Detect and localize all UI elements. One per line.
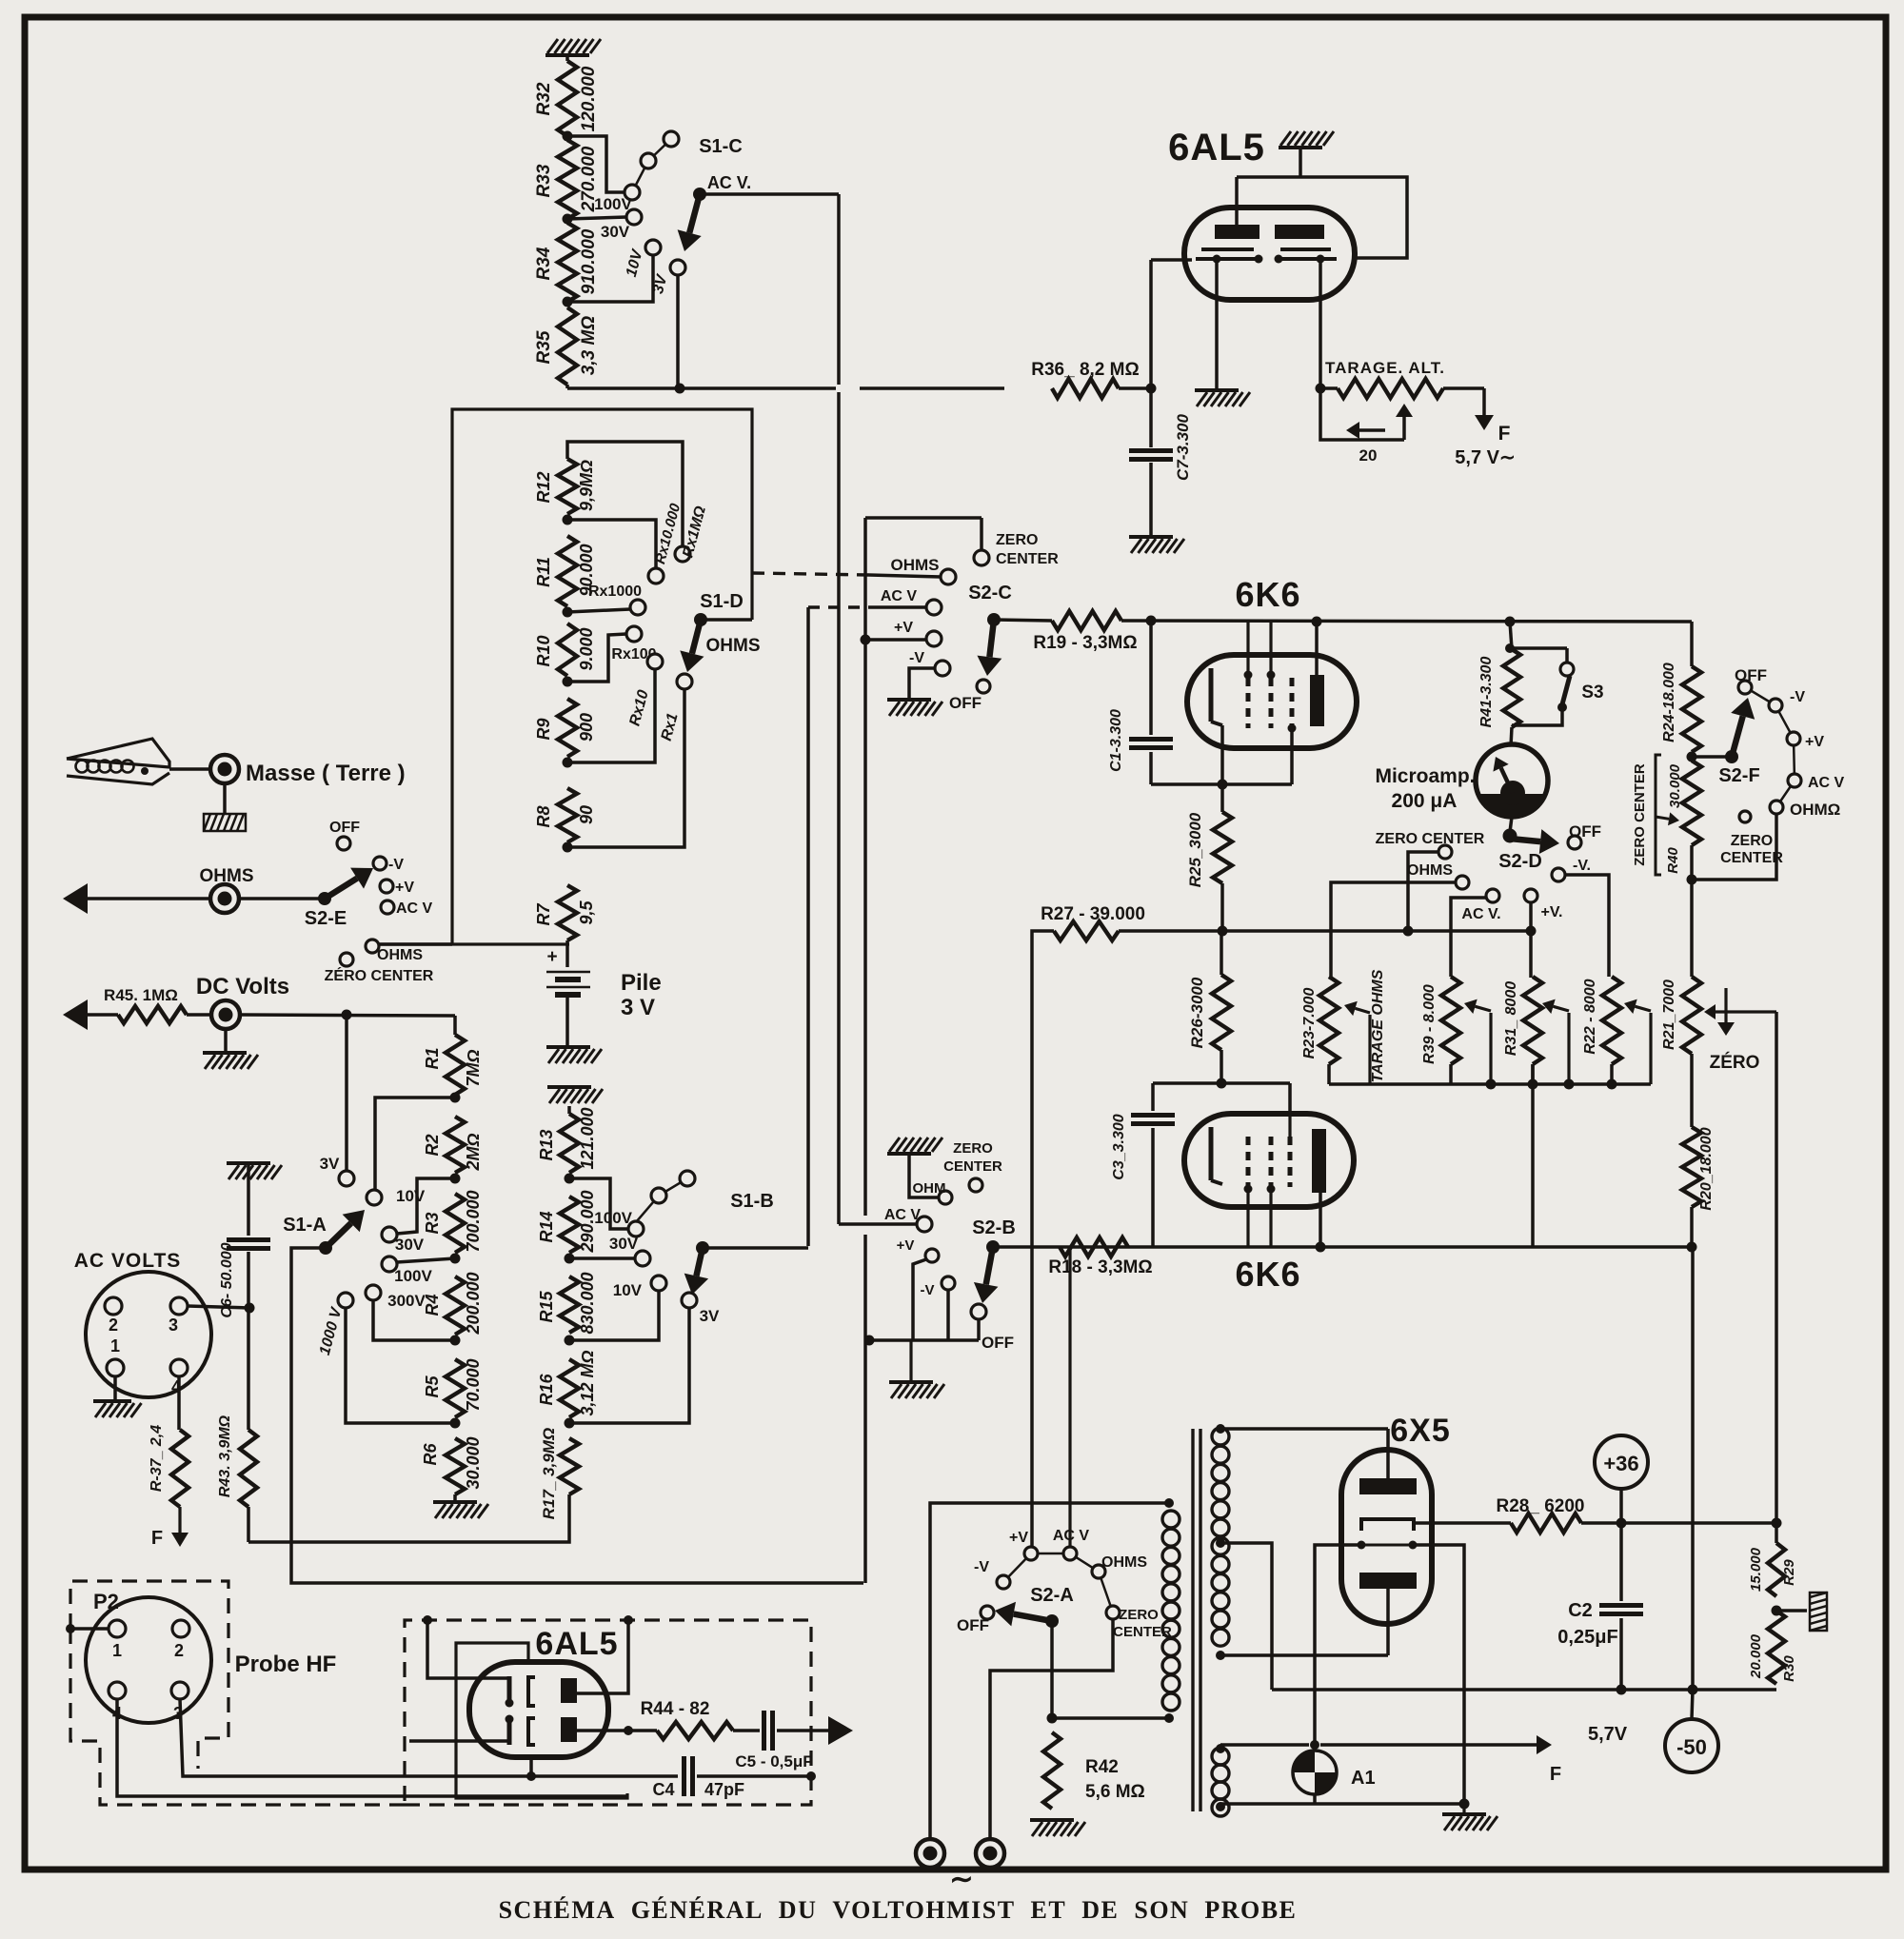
contact +V S2-B	[897, 1237, 939, 1262]
contact Rx10 S1-D	[626, 654, 663, 728]
terminal DC Volts	[187, 974, 289, 1029]
contact arc S1-C	[635, 131, 679, 187]
resistor R13	[537, 1107, 597, 1173]
switch S1-D	[680, 591, 760, 672]
wire 6AL5 cathode2 down	[1319, 263, 1322, 388]
node R13/R14	[565, 1174, 575, 1184]
svg-text:R36_ 8,2 MΩ: R36_ 8,2 MΩ	[1031, 360, 1139, 380]
switch S3	[1505, 643, 1604, 725]
resistor R4	[423, 1272, 483, 1335]
potentiometer R23 TARAGE OHMS	[1301, 969, 1386, 1084]
svg-text:200 μA: 200 μA	[1392, 790, 1458, 812]
ground below R42	[1030, 1820, 1085, 1836]
contact OFF S2-E	[329, 820, 360, 850]
wire HV bottom to 6X5 plate2	[1220, 1653, 1388, 1657]
wire tap 100V S1-B	[569, 1178, 628, 1229]
resistor R37	[149, 1425, 188, 1507]
contact OFF S2-B	[971, 1304, 1014, 1352]
wire R27 left leg	[1032, 931, 1054, 1551]
svg-text:30V: 30V	[609, 1235, 639, 1253]
6X5 heater	[1358, 1541, 1418, 1550]
ground below battery	[546, 1047, 602, 1063]
probe P2 dashed box	[70, 1581, 405, 1805]
resistor R20	[1682, 1127, 1715, 1211]
svg-text:6K6: 6K6	[1235, 575, 1300, 614]
svg-text:R3: R3	[423, 1212, 442, 1234]
resistor R27	[1041, 904, 1222, 940]
contact zero center S2-A	[1106, 1606, 1172, 1640]
contact OHMS S2-C	[891, 556, 957, 584]
ground below C7	[1129, 537, 1184, 553]
6AL5 plate 2	[1275, 225, 1324, 239]
contact ACV S2-D	[1461, 889, 1500, 922]
node R11/R10	[563, 607, 573, 618]
ohms range box	[372, 409, 752, 944]
wire tap 10V S1-A	[375, 1098, 455, 1190]
switch S2-A	[995, 1585, 1074, 1628]
resistor R45	[104, 986, 187, 1023]
6K6u grid 2	[1267, 621, 1276, 728]
wire C3 bus	[1153, 1083, 1290, 1116]
wire S1-A pivot west-south	[291, 1248, 863, 1583]
wire pin3 long	[180, 1699, 678, 1776]
contact Rx1M S1-D	[675, 504, 709, 562]
terminal AC input right	[976, 1839, 1004, 1868]
switch S2-C	[968, 583, 1012, 676]
contact zero center S2-C	[974, 532, 1059, 567]
contact 10V S1-A	[367, 1187, 426, 1205]
svg-text:290.000: 290.000	[578, 1190, 597, 1253]
svg-text:6AL5: 6AL5	[1168, 127, 1265, 168]
svg-text:3,3 MΩ: 3,3 MΩ	[579, 316, 599, 376]
wire C4 to box edge	[697, 1771, 816, 1781]
wire tap 100V S1-A	[397, 1258, 455, 1262]
wire socket pin4 to R37	[177, 1376, 181, 1430]
contact +V S2-E	[380, 880, 414, 896]
wire tap Rx10000	[567, 520, 656, 568]
wire minus rail	[1272, 1688, 1776, 1692]
ground below pin1	[93, 1401, 142, 1417]
svg-text:2MΩ: 2MΩ	[464, 1133, 483, 1171]
contact OHMS S2-E	[366, 940, 423, 963]
junction +36	[1616, 1518, 1627, 1529]
junction R22 bottom	[1607, 1079, 1617, 1090]
svg-text:30.000: 30.000	[1667, 763, 1683, 808]
wire tap 10V	[567, 255, 653, 302]
svg-text:C2: C2	[1568, 1600, 1593, 1621]
contact zero center S2-D	[1376, 831, 1485, 859]
svg-text:100V: 100V	[594, 195, 632, 213]
svg-text:R42: R42	[1085, 1757, 1119, 1777]
svg-text:47pF: 47pF	[704, 1780, 744, 1799]
junction probe box top left	[423, 1615, 432, 1625]
svg-text:ZERO: ZERO	[953, 1140, 993, 1157]
ground heater	[1442, 1804, 1497, 1830]
contact +V S2-C	[894, 620, 942, 646]
contact ACV S2-F	[1788, 774, 1845, 791]
svg-text:200.000: 200.000	[464, 1272, 483, 1335]
junction +V bus	[1526, 926, 1537, 937]
svg-text:830.000: 830.000	[578, 1272, 597, 1334]
svg-text:ZERO: ZERO	[1731, 833, 1773, 849]
contact 100V S1-A	[382, 1256, 433, 1285]
resistor R25	[1186, 784, 1232, 887]
riser DC divider	[863, 518, 867, 1583]
wire +V S2-B	[913, 1259, 926, 1340]
wire R21 to R20	[1690, 1054, 1694, 1127]
socket AC VOLTS	[74, 1250, 211, 1397]
capacitor C1	[1108, 621, 1173, 784]
6AL5 anode loop wire	[1300, 177, 1407, 258]
svg-text:6X5: 6X5	[1390, 1413, 1451, 1449]
svg-text:R7: R7	[534, 903, 553, 926]
contact 30V S1-C	[601, 209, 642, 241]
wire zero center S2-A down	[990, 1619, 1113, 1837]
6AL5 plate 1	[1215, 225, 1259, 239]
6K6u cathode	[1211, 668, 1222, 784]
wire R25 to R27 node	[1220, 883, 1224, 931]
svg-text:C3_3.300: C3_3.300	[1111, 1114, 1127, 1179]
contact ACV S2-B	[884, 1207, 932, 1232]
svg-text:+: +	[546, 947, 557, 967]
svg-text:Pile: Pile	[621, 970, 662, 996]
resistor R21	[1661, 977, 1701, 1054]
switch S2-B	[972, 1217, 1016, 1303]
svg-text:R-37_ 2,4: R-37_ 2,4	[149, 1425, 165, 1492]
svg-text:R30: R30	[1781, 1655, 1797, 1682]
svg-text:-V: -V	[974, 1559, 989, 1575]
wire C6 to R43	[247, 1308, 250, 1430]
wire 6X5 heater left to A1	[1315, 1545, 1361, 1745]
contact -V S2-A	[974, 1559, 1010, 1589]
node R36/C7/6AL5	[1146, 384, 1157, 394]
svg-text:Microamp.: Microamp.	[1375, 765, 1475, 787]
svg-text:TARAGE. ALT.: TARAGE. ALT.	[1325, 359, 1445, 377]
junction C1 bus	[1146, 616, 1157, 626]
node R10/R9	[563, 677, 573, 687]
svg-text:70.000: 70.000	[464, 1358, 483, 1411]
svg-text:7MΩ: 7MΩ	[464, 1049, 483, 1086]
transformer HV secondary winding	[1212, 1424, 1229, 1660]
battery Pile 3V	[546, 940, 662, 1045]
node R12/R11	[563, 515, 573, 525]
6K6l plate	[1312, 1129, 1326, 1247]
svg-text:R24-18.000: R24-18.000	[1661, 663, 1677, 742]
svg-text:TARAGE OHMS: TARAGE OHMS	[1370, 969, 1386, 1082]
ground below R6	[433, 1494, 488, 1518]
wire to primary bottom	[1052, 1716, 1169, 1720]
node R34/R35	[563, 297, 573, 307]
tube 6K6 upper	[1187, 575, 1357, 748]
svg-text:R13: R13	[537, 1129, 556, 1160]
6K6l grid 1	[1244, 1137, 1253, 1247]
svg-text:OHMS: OHMS	[1407, 862, 1453, 879]
ground below Masse	[204, 814, 246, 831]
svg-text:9,5: 9,5	[577, 900, 596, 925]
svg-text:R26-3000: R26-3000	[1188, 977, 1206, 1048]
svg-text:R18 - 3,3MΩ: R18 - 3,3MΩ	[1048, 1257, 1152, 1277]
svg-text:R40: R40	[1665, 847, 1681, 874]
svg-text:R35: R35	[534, 330, 554, 364]
svg-text:R45. 1MΩ: R45. 1MΩ	[104, 986, 178, 1004]
svg-text:AC V.: AC V.	[1461, 906, 1500, 922]
6AL5p plate hook 1	[528, 1677, 535, 1706]
capacitor C5	[733, 1711, 832, 1771]
resistor R44	[641, 1699, 733, 1739]
meter Microamp 200uA	[1375, 727, 1548, 817]
wire DC Volts to R1	[240, 1015, 455, 1016]
resistor R11	[534, 536, 596, 606]
resistor R36	[1031, 360, 1139, 398]
zero center bracket R40	[1632, 755, 1679, 875]
transformer primary winding	[1162, 1498, 1180, 1723]
svg-text:2: 2	[174, 1641, 184, 1660]
contact OHM-ohm S2-F	[1770, 801, 1840, 819]
svg-text:CENTER: CENTER	[1720, 850, 1783, 866]
probe 6AL5 dashed box	[405, 1620, 811, 1805]
svg-text:R31_ 8000: R31_ 8000	[1503, 981, 1519, 1056]
resistor R17	[540, 1428, 579, 1519]
node R1/R2	[450, 1093, 461, 1103]
resistor R2	[423, 1117, 483, 1173]
resistor R14	[537, 1190, 597, 1253]
svg-text:-V: -V	[1790, 689, 1805, 705]
6AL5 cathode 2	[1275, 249, 1338, 264]
6AL5p anode 1	[561, 1678, 577, 1703]
wire -V to ground	[909, 668, 935, 698]
wire R40 to R21	[1690, 880, 1694, 977]
svg-text:1: 1	[112, 1641, 122, 1660]
svg-text:S1-A: S1-A	[283, 1215, 327, 1236]
svg-text:R39 - 8.000: R39 - 8.000	[1421, 984, 1438, 1064]
junction R27 node	[1218, 926, 1228, 937]
wire OHMS terminal to S2-E	[239, 897, 325, 900]
resistor R5	[423, 1358, 483, 1417]
node R3/R4	[450, 1254, 461, 1264]
wire -V S2-B	[946, 1291, 950, 1340]
wire socket pin3 to C6 line	[188, 1306, 249, 1308]
contact -V S2-F	[1769, 689, 1805, 712]
svg-text:3V: 3V	[320, 1155, 340, 1173]
contact OFF S2-A	[957, 1606, 994, 1634]
resistor R35	[534, 307, 599, 385]
junction R20 bus	[1687, 1242, 1697, 1253]
svg-text:2: 2	[109, 1316, 118, 1335]
wire S1-D pivot to box	[701, 618, 752, 622]
svg-text:R15: R15	[537, 1291, 556, 1323]
svg-text:3 V: 3 V	[621, 995, 655, 1020]
resistor R28	[1497, 1496, 1585, 1533]
svg-text:-V: -V	[388, 857, 404, 873]
svg-text:OFF: OFF	[957, 1616, 989, 1634]
node R2/R3	[450, 1174, 461, 1184]
contact 1000V S1-A	[317, 1293, 353, 1357]
contact 300V S1-A	[366, 1285, 426, 1310]
svg-text:R16: R16	[537, 1374, 556, 1406]
node R8/R7	[563, 842, 573, 853]
resistor R32	[534, 61, 599, 136]
svg-text:900: 900	[577, 713, 596, 742]
junction R29/R30	[1772, 1606, 1782, 1616]
contact OHM S2-B	[913, 1180, 953, 1204]
contact 3V S1-A	[320, 1155, 354, 1186]
wire clip to Masse terminal	[169, 767, 210, 771]
switch S2-F	[1718, 698, 1759, 786]
contact -V S2-D	[1552, 858, 1591, 881]
svg-text:3: 3	[169, 1316, 178, 1335]
arrow probe output	[828, 1716, 853, 1745]
6K6l grid 3	[1288, 1116, 1291, 1187]
capacitor C3	[1111, 1083, 1175, 1247]
contact OHMS S2-A	[1092, 1554, 1147, 1578]
wire tap 30V S1-B	[569, 1256, 635, 1260]
junction R40 bottom	[1687, 875, 1697, 885]
svg-text:R4: R4	[423, 1294, 442, 1316]
svg-text:R5: R5	[423, 1375, 442, 1398]
wire pin4 long	[117, 1699, 627, 1796]
wire 6X5 heater right to ground	[1413, 1545, 1464, 1804]
ground below -V S2-C	[887, 700, 942, 716]
svg-text:R28_ 6200: R28_ 6200	[1497, 1496, 1585, 1516]
svg-text:P2: P2	[93, 1590, 119, 1613]
6K6l cathode	[1211, 1127, 1222, 1184]
ground above 6AL5	[1279, 131, 1334, 177]
contact OFF S2-F	[1735, 666, 1767, 694]
svg-text:10V: 10V	[396, 1187, 426, 1205]
6X5 cathode	[1361, 1519, 1414, 1531]
svg-text:15.000: 15.000	[1748, 1547, 1764, 1592]
svg-text:ZERO: ZERO	[996, 532, 1038, 548]
svg-text:OHM: OHM	[913, 1180, 946, 1197]
6AL5p plate hook 2	[528, 1718, 535, 1745]
svg-text:5,7 V∼: 5,7 V∼	[1455, 447, 1515, 468]
svg-text:R25_3000: R25_3000	[1186, 812, 1204, 887]
wire 6K6u cathode rail	[1151, 782, 1292, 786]
ground above OHM S2-B	[887, 1138, 942, 1154]
transformer core	[1193, 1429, 1200, 1811]
wire tube bottom pin	[526, 1757, 536, 1781]
capacitor C2	[1557, 1523, 1643, 1690]
svg-text:30V: 30V	[601, 223, 630, 241]
contact -V S2-C	[909, 650, 950, 676]
junction cathode rail	[1218, 780, 1228, 790]
svg-text:R21_7000: R21_7000	[1661, 979, 1677, 1050]
contact ACV S2-A	[1053, 1248, 1090, 1560]
svg-text:S1-D: S1-D	[700, 591, 744, 612]
node R5/R6	[450, 1418, 461, 1429]
svg-text:120.000: 120.000	[579, 66, 599, 131]
ground below DC Volts	[203, 1029, 258, 1069]
wire AC left to primary	[930, 1503, 1169, 1837]
arrow DC volts output	[63, 999, 118, 1030]
svg-text:ZERO CENTER: ZERO CENTER	[1376, 831, 1485, 847]
svg-text:OFF: OFF	[329, 820, 360, 836]
ground above R32	[545, 39, 601, 61]
tube 6AL5	[1168, 127, 1355, 300]
junction R31 bracket	[1564, 1079, 1575, 1090]
resistor R29	[1748, 1523, 1797, 1596]
switch S1-C	[678, 136, 752, 251]
svg-text:5,6 MΩ: 5,6 MΩ	[1085, 1782, 1145, 1802]
svg-text:Probe HF: Probe HF	[235, 1652, 337, 1677]
wire OFF S2-B to bus	[869, 1319, 979, 1340]
svg-text:AC V: AC V	[881, 588, 918, 604]
svg-text:R44 - 82: R44 - 82	[641, 1699, 710, 1719]
svg-text:OHMS: OHMS	[377, 947, 423, 963]
svg-text:AC V: AC V	[396, 900, 433, 917]
svg-text:+V: +V	[1009, 1530, 1028, 1546]
resistor R6	[421, 1436, 483, 1494]
wire R36 to node	[1119, 386, 1151, 390]
resistor R1	[423, 1016, 483, 1095]
wire to 3V contact	[345, 1015, 348, 1170]
svg-text:R23-7.000: R23-7.000	[1301, 988, 1318, 1059]
junction heater ground	[1459, 1799, 1470, 1810]
svg-text:R10: R10	[534, 635, 553, 666]
resistor R41	[1478, 622, 1520, 727]
svg-text:+V.: +V.	[1541, 904, 1563, 920]
dashed link OHMS	[752, 573, 941, 577]
svg-text:CENTER: CENTER	[943, 1158, 1002, 1175]
junction zc bus	[1403, 926, 1414, 937]
contact 30V S1-B	[609, 1235, 650, 1266]
svg-text:R14: R14	[537, 1211, 556, 1242]
junction 6K6l plate	[1316, 1242, 1326, 1253]
contact Rx1 S1-D	[659, 674, 692, 742]
contact arc S2-F	[1752, 691, 1795, 801]
svg-text:S2-C: S2-C	[968, 583, 1012, 603]
junction probe box top right	[624, 1615, 633, 1625]
contact 10V S1-B	[613, 1276, 666, 1299]
svg-text:OHMS: OHMS	[891, 556, 940, 574]
svg-text:CENTER: CENTER	[996, 551, 1059, 567]
contact 3V S1-C	[650, 260, 685, 295]
terminal +36	[1595, 1435, 1648, 1523]
dashed link ACV	[808, 605, 926, 608]
ground R29	[1776, 1593, 1827, 1631]
contact +V S2-F	[1787, 732, 1824, 750]
wire tap Rx1	[567, 689, 684, 847]
ground above C6	[227, 1163, 282, 1180]
svg-text:AC VOLTS: AC VOLTS	[74, 1250, 182, 1272]
tube 6X5	[1341, 1413, 1451, 1624]
6AL5p anode 2	[561, 1717, 577, 1742]
svg-text:R43. 3,9MΩ: R43. 3,9MΩ	[217, 1415, 233, 1497]
wire tap 3V S1-B	[569, 1308, 689, 1423]
svg-text:3,12 MΩ: 3,12 MΩ	[578, 1350, 597, 1415]
contact arc S1-B	[636, 1171, 695, 1222]
junction pin3/C6	[245, 1303, 255, 1314]
wire socket pin1 ground	[113, 1376, 117, 1401]
wire heater bus top 5,7V	[1220, 1724, 1628, 1785]
junction TARAGE left	[1316, 384, 1326, 394]
svg-text:+36: +36	[1603, 1452, 1638, 1475]
junction OFF bus riser	[864, 1336, 875, 1346]
svg-text:R34: R34	[534, 247, 554, 280]
6AL5 cathode 1	[1196, 249, 1263, 264]
wire tap Rx100	[567, 634, 626, 682]
potentiometer TARAGE ALT	[1320, 359, 1445, 398]
wire tap 1000V S1-A	[346, 1308, 455, 1423]
wire bus corner to R24	[1690, 622, 1694, 666]
svg-text:R32: R32	[534, 82, 554, 115]
contact OFF S2-C	[949, 680, 990, 712]
wire probe top-left to cathode	[427, 1620, 509, 1678]
svg-text:∼: ∼	[949, 1864, 973, 1895]
svg-text:DC Volts: DC Volts	[196, 974, 289, 999]
terminal OHMS	[200, 866, 254, 913]
wire OHM to ground	[909, 1155, 939, 1197]
